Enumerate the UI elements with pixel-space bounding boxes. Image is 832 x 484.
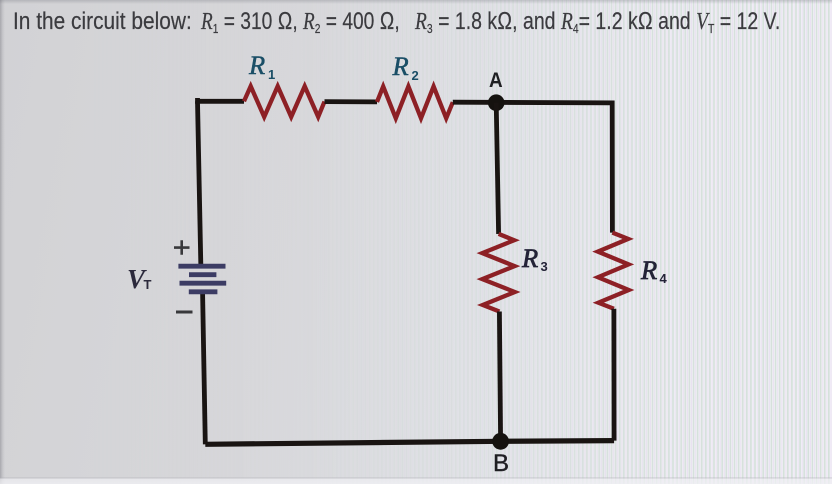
resistor R3 bbox=[482, 234, 515, 312]
svg-text:3: 3 bbox=[541, 259, 548, 274]
wire: below R4 down to bottom-right corner bbox=[612, 309, 617, 441]
wire: below R3 down to node B bbox=[499, 312, 500, 442]
wire: node A branch down to R3 bbox=[496, 103, 498, 234]
wire: from R2 through node A to top-right corner, then down right side to R4 bbox=[453, 102, 613, 232]
resistor R1 bbox=[244, 86, 325, 117]
svg-text:R: R bbox=[392, 51, 409, 81]
battery VT plate 2 short bbox=[189, 272, 216, 277]
svg-text:B: B bbox=[493, 450, 509, 477]
svg-text:T: T bbox=[144, 277, 152, 292]
node A bbox=[488, 94, 505, 111]
wire: between R1 and R2 bbox=[325, 99, 378, 104]
svg-text:2: 2 bbox=[412, 68, 419, 83]
battery VT plate 1 long bbox=[178, 264, 225, 269]
svg-text:R: R bbox=[640, 255, 657, 285]
battery VT plate 4 short bbox=[189, 289, 218, 294]
battery VT plate 3 long bbox=[180, 281, 227, 286]
wire: battery bottom to bottom-left corner bbox=[203, 294, 206, 444]
wire: bottom from left corner through node B to right corner bbox=[205, 441, 614, 445]
wire: left vertical from top corner down to battery top bbox=[198, 101, 201, 264]
resistor R2 bbox=[377, 86, 453, 118]
svg-text:4: 4 bbox=[660, 271, 668, 286]
battery minus sign bbox=[176, 311, 193, 314]
wire: top-left segment from corner to R1 bbox=[198, 98, 245, 101]
battery plus sign bbox=[174, 240, 190, 255]
svg-text:1: 1 bbox=[268, 67, 275, 82]
svg-text:R: R bbox=[248, 50, 265, 80]
resistor R4 bbox=[598, 233, 629, 309]
problem statement text bbox=[13, 7, 192, 36]
node B bbox=[492, 433, 509, 450]
svg-text:R: R bbox=[521, 243, 538, 273]
svg-text:A: A bbox=[489, 69, 503, 92]
